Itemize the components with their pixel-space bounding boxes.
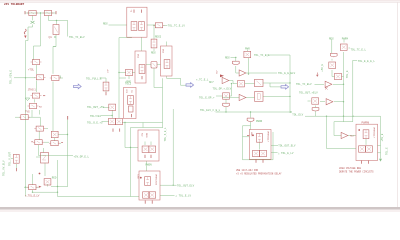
svg-text:TOL_FULL_E: TOL_FULL_E [86,77,102,80]
svg-text:REG: REG [329,38,334,41]
svg-text:RED: RED [52,177,57,180]
svg-text:TOL_OUT_ELV: TOL_OUT_ELV [278,145,296,148]
svg-text:TOL_ELV: TOL_ELV [292,113,303,116]
svg-text:+5V_OP_E_L: +5V_OP_E_L [74,155,90,158]
svg-text:TOL_O_E_+5: TOL_O_E_+5 [87,121,103,124]
svg-text:REG2: REG2 [155,35,162,38]
svg-text:+5V_E: +5V_E [321,63,324,71]
svg-text:TOL_OP_+_ELV: TOL_OP_+_ELV [213,88,232,91]
svg-text:+5V_E: +5V_E [381,133,384,141]
svg-text:LED: LED [137,175,139,180]
svg-text:JTAG 1: JTAG 1 [28,88,37,91]
svg-text:M: M [54,36,56,39]
svg-text:△ TOL_E_LV: △ TOL_E_LV [176,194,192,197]
svg-text:NC7: NC7 [209,81,214,84]
svg-text:+TOL: +TOL [28,69,35,72]
svg-text:NC7: NC7 [350,135,355,137]
svg-text:+_TC_E_L: +_TC_E_L [196,79,209,82]
svg-text:TOL2: TOL2 [125,82,132,85]
svg-text:PWRM: PWRM [342,38,349,41]
svg-text:REG: REG [103,22,108,25]
svg-text:TOL_TC_E_L: TOL_TC_E_L [351,49,367,52]
svg-text:TOL_E_OP_+: TOL_E_OP_+ [199,96,215,99]
svg-text:TVS: TVS [25,110,30,113]
svg-text:VREG2020: VREG2020 [155,174,157,186]
svg-text:+3 +5 REGULATED PROPAGATION DE: +3 +5 REGULATED PROPAGATION DELAY [236,172,282,175]
svg-text:TOL_V_OUT: TOL_V_OUT [9,152,12,166]
svg-text:TOL_TC_ELV: TOL_TC_ELV [69,36,85,39]
svg-text:△ TOL_E_LV: △ TOL_E_LV [278,152,294,155]
svg-text:TOL_S_E_L: TOL_S_E_L [164,127,167,141]
svg-text:REG: REG [225,57,230,60]
svg-text:TOL_E: TOL_E [386,147,389,155]
svg-text:PWR: PWR [245,48,250,51]
svg-text:+5V: +5V [215,70,217,74]
svg-text:VREG1117: VREG1117 [266,131,268,143]
svg-text:TOL_TC_E_LV: TOL_TC_E_LV [168,24,186,27]
svg-text:LED: LED [250,132,252,137]
svg-text:TOL_E: TOL_E [346,70,349,78]
svg-text:24V TOLERANT: 24V TOLERANT [4,3,24,6]
svg-text:VREG1117: VREG1117 [373,127,375,139]
svg-text:PWDN: PWDN [256,120,263,123]
svg-text:TOL_E_E_ELV: TOL_E_E_ELV [278,72,296,75]
svg-text:DERATE THE POWER CIRCUITS: DERATE THE POWER CIRCUITS [339,170,374,173]
svg-text:TOL_VIN_E: TOL_VIN_E [10,70,13,84]
svg-text:TOL_TC_E_L: TOL_TC_E_L [254,54,270,57]
svg-text:TOL/V22: TOL/V22 [90,114,101,118]
svg-text:REG: REG [151,51,156,54]
svg-text:TOL_OUT_ELV: TOL_OUT_ELV [177,184,195,187]
svg-text:TOL_OUT_+5V: TOL_OUT_+5V [87,106,105,109]
svg-text:TOL_E_E_E_L: TOL_E_E_E_L [358,60,376,63]
svg-text:TOL_VV_ELV: TOL_VV_ELV [3,160,6,176]
svg-text:TOL_OUT_+ELV: TOL_OUT_+ELV [299,91,318,94]
svg-text:PWDN: PWDN [146,164,153,167]
svg-text:REG: REG [145,133,147,138]
svg-text:TOL_ELV_C_E_L: TOL_ELV_C_E_L [200,109,221,112]
svg-text:TOL_TC_ELV: TOL_TC_ELV [296,83,312,86]
svg-text:+_TOL_E_LV: +_TOL_E_LV [25,195,40,198]
